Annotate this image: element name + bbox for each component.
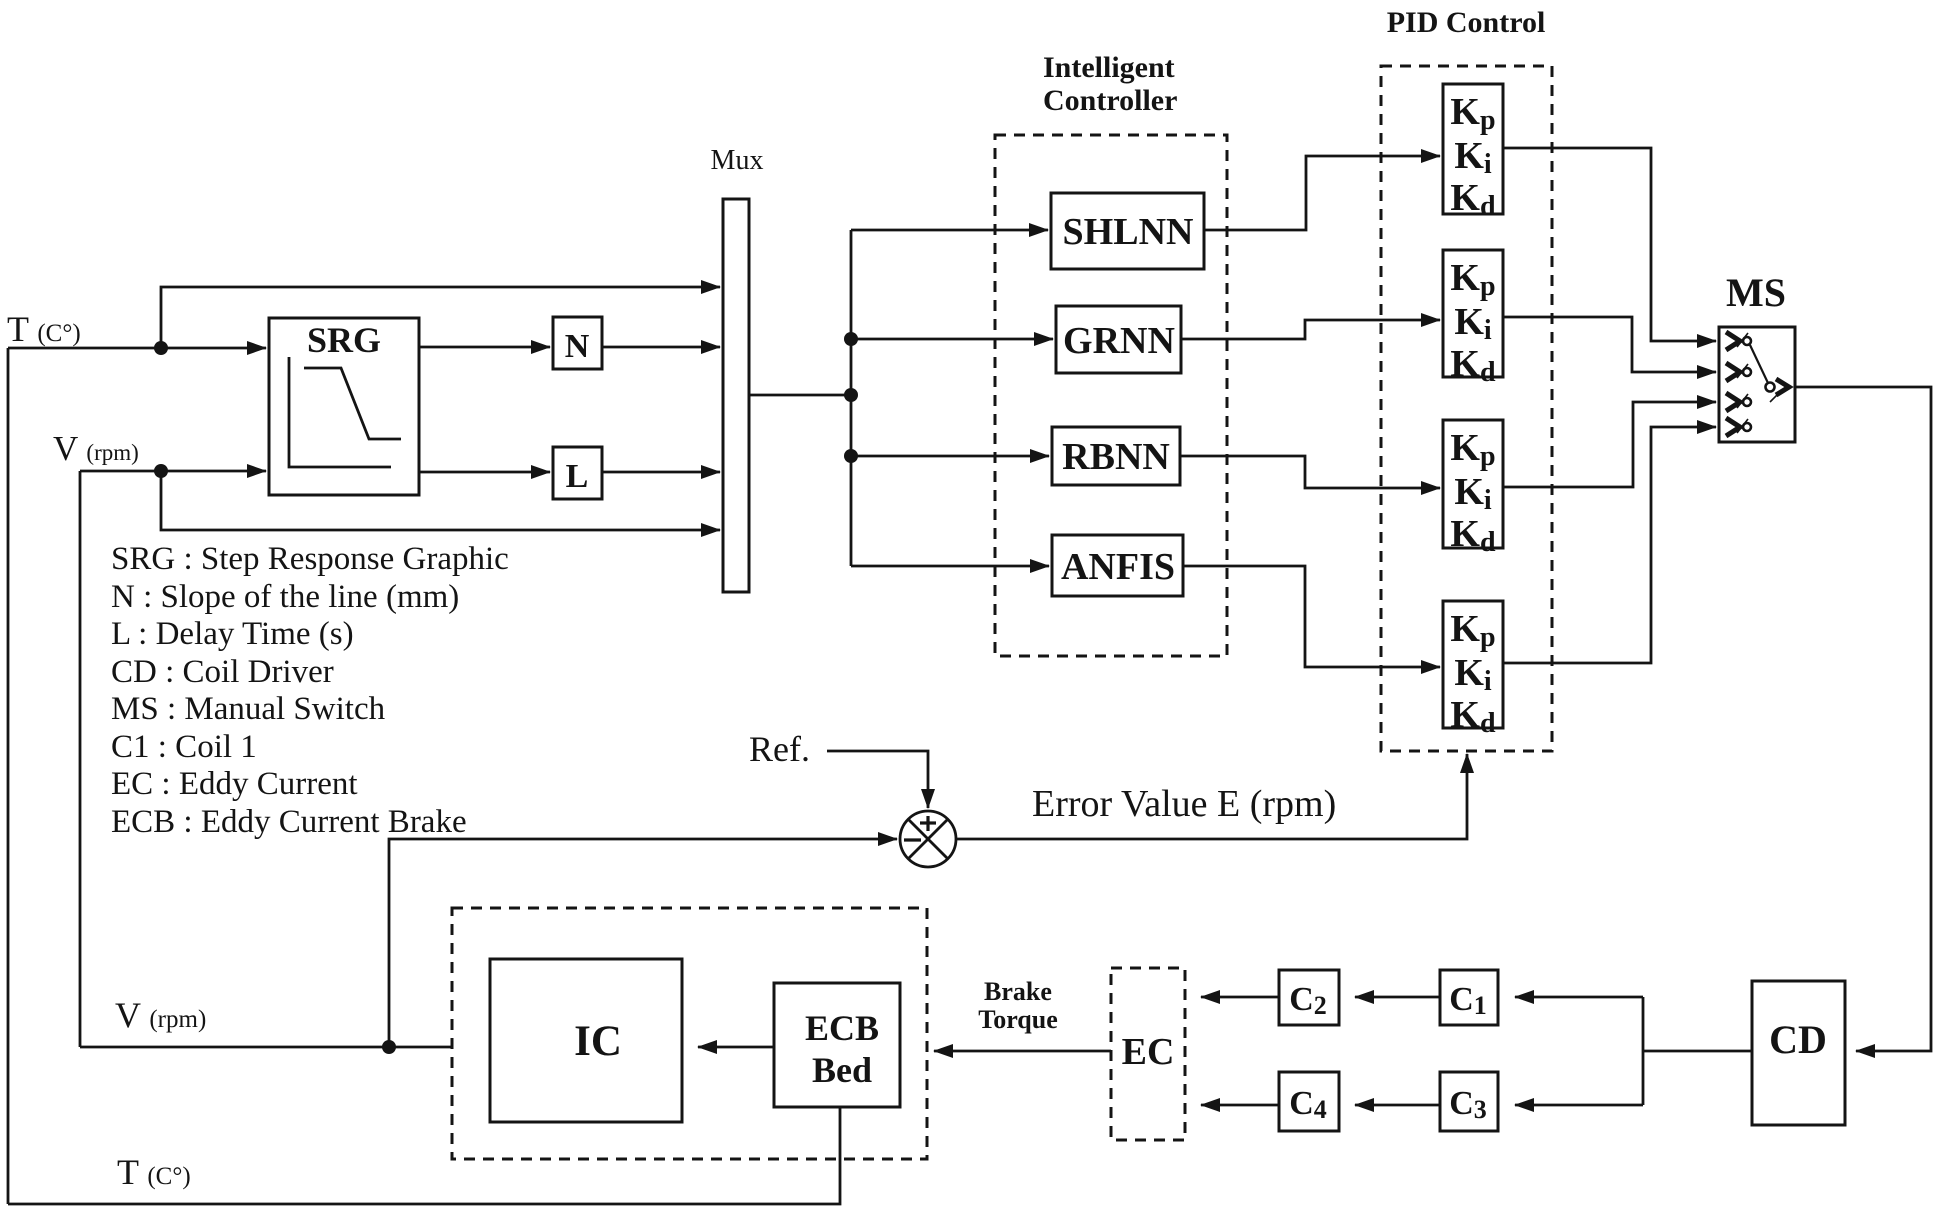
- svg-text:RBNN: RBNN: [1062, 436, 1170, 478]
- wire T branch to Mux input 1: [161, 287, 720, 348]
- node T junction: [154, 341, 168, 355]
- summing junction X cross 2: [908, 819, 948, 859]
- MS output arrow tail tick: [1770, 392, 1780, 402]
- svg-text:L : Delay Time (s): L : Delay Time (s): [111, 616, 354, 652]
- block PID gains 4: [1443, 601, 1503, 728]
- svg-text:PID Control: PID Control: [1387, 6, 1546, 39]
- wire C2 to EC: [1201, 996, 1279, 999]
- MS contact 2: [1726, 363, 1751, 381]
- MS contact 4: [1726, 418, 1751, 436]
- MS contact 1: [1726, 332, 1751, 350]
- block ANFIS: [1052, 535, 1183, 596]
- wire bottom T feedback horizontal: [8, 1107, 840, 1204]
- svg-text:Bed: Bed: [812, 1050, 872, 1090]
- node V junction: [154, 464, 168, 478]
- wire V feedback bottom horizontal: [80, 1046, 452, 1049]
- svg-text:EC : Eddy Current: EC : Eddy Current: [111, 766, 358, 802]
- wire bus to C1: [1515, 996, 1643, 999]
- summing minus sign: [904, 838, 921, 841]
- wire C1 to C2: [1355, 996, 1440, 999]
- svg-text:N: N: [565, 328, 590, 365]
- svg-text:V (rpm): V (rpm): [115, 995, 206, 1035]
- svg-text:Torque: Torque: [978, 1005, 1058, 1034]
- wire bus to C3: [1515, 1104, 1643, 1107]
- svg-text:Kd: Kd: [1450, 343, 1496, 388]
- svg-text:Kp: Kp: [1450, 91, 1495, 136]
- wire MS to CD feedback: [1795, 387, 1931, 1051]
- block L: [553, 447, 602, 499]
- svg-text:MS: MS: [1726, 270, 1786, 315]
- MS output pole: [1766, 383, 1775, 392]
- wire ANFIS to PID4: [1183, 566, 1440, 667]
- wire branch vertical bus: [850, 230, 853, 566]
- svg-text:ECB : Eddy Current Brake: ECB : Eddy Current Brake: [111, 804, 467, 840]
- block MS manual switch: [1719, 327, 1795, 442]
- svg-text:L: L: [566, 458, 589, 495]
- wire T feedback left vertical: [7, 348, 10, 1204]
- wire SHLNN to PID1: [1204, 156, 1440, 230]
- block SHLNN: [1051, 193, 1204, 269]
- svg-text:ECB: ECB: [805, 1008, 879, 1048]
- wire error value output to PID: [956, 754, 1467, 839]
- node branch center: [844, 388, 858, 402]
- svg-text:MS : Manual Switch: MS : Manual Switch: [111, 691, 386, 727]
- block C3: [1440, 1072, 1498, 1131]
- svg-text:V (rpm): V (rpm): [53, 429, 139, 468]
- svg-text:GRNN: GRNN: [1063, 320, 1175, 362]
- wire EC to ECB Bed brake torque: [934, 1050, 1111, 1053]
- wire RBNN to PID3: [1180, 456, 1440, 488]
- svg-text:Mux: Mux: [711, 145, 764, 176]
- wire PID3 to MS input3: [1503, 402, 1716, 487]
- wire L to Mux input 3: [602, 471, 720, 474]
- svg-text:CD : Coil Driver: CD : Coil Driver: [111, 654, 334, 690]
- wire N to Mux input 2: [602, 346, 720, 349]
- wire branch to ANFIS: [851, 565, 1049, 568]
- svg-text:Kp: Kp: [1450, 608, 1495, 653]
- svg-text:C4: C4: [1289, 1085, 1327, 1124]
- block GRNN: [1056, 306, 1181, 373]
- wire V junction up to summing point: [389, 839, 897, 1047]
- wire coil bus vertical: [1642, 997, 1645, 1105]
- svg-text:C1: C1: [1449, 981, 1487, 1020]
- svg-text:Kp: Kp: [1450, 257, 1495, 302]
- wire V feedback left vertical: [79, 471, 82, 1047]
- svg-text:Controller: Controller: [1043, 84, 1177, 117]
- wire PID1 to MS input1: [1503, 148, 1716, 341]
- svg-text:Ki: Ki: [1454, 652, 1492, 697]
- node V feedback junction: [382, 1040, 396, 1054]
- wire C3 to C4: [1355, 1104, 1440, 1107]
- block PID gains 3: [1443, 420, 1503, 548]
- wire SRG to N: [419, 346, 550, 349]
- node branch RBNN: [844, 449, 858, 463]
- wire GRNN to PID2: [1181, 320, 1440, 339]
- block RBNN: [1052, 427, 1180, 485]
- summing junction circle: [900, 811, 956, 867]
- wire SRG to L: [419, 471, 550, 474]
- svg-text:Ki: Ki: [1454, 471, 1492, 516]
- wire Ref input: [827, 751, 928, 808]
- MS selector lever: [1750, 345, 1768, 383]
- svg-text:C3: C3: [1449, 1085, 1487, 1124]
- MS contact 3: [1726, 393, 1751, 411]
- block C4: [1279, 1072, 1339, 1131]
- svg-text:EC: EC: [1122, 1031, 1175, 1073]
- block C1: [1440, 970, 1498, 1025]
- svg-text:Intelligent: Intelligent: [1043, 51, 1175, 84]
- svg-text:Ref.: Ref.: [749, 729, 810, 769]
- block EC dashed: [1111, 968, 1185, 1140]
- wire branch to GRNN: [851, 338, 1053, 341]
- block PID Control dashed box: [1381, 66, 1552, 751]
- wire C4 to EC: [1201, 1104, 1279, 1107]
- svg-text:Kp: Kp: [1450, 427, 1495, 472]
- block Intelligent Controller dashed box: [995, 135, 1227, 656]
- svg-text:T (C°): T (C°): [117, 1152, 191, 1192]
- block C2: [1279, 970, 1339, 1025]
- svg-text:SHLNN: SHLNN: [1063, 211, 1194, 253]
- wire V branch to Mux input 4: [161, 471, 720, 530]
- summing junction X cross: [908, 819, 948, 859]
- svg-text:SRG : Step Response Graphic: SRG : Step Response Graphic: [111, 541, 509, 577]
- wire PID2 to MS input2: [1503, 317, 1716, 372]
- block N: [553, 317, 602, 369]
- wire branch to SHLNN: [851, 229, 1048, 232]
- block SRG: [269, 318, 419, 495]
- block CD: [1752, 981, 1845, 1125]
- node branch GRNN: [844, 332, 858, 346]
- wire T input horizontal into SRG: [8, 347, 266, 350]
- block Mux: [723, 199, 749, 592]
- svg-text:SRG: SRG: [307, 320, 381, 360]
- svg-text:C1 : Coil 1: C1 : Coil 1: [111, 729, 257, 765]
- MS output arrow chevron: [1776, 379, 1789, 395]
- wire Mux output: [749, 394, 851, 397]
- wire PID4 to MS input4: [1503, 427, 1716, 663]
- svg-text:Error Value E (rpm): Error Value E (rpm): [1032, 783, 1336, 825]
- wire ECB Bed to IC: [698, 1046, 774, 1049]
- block ECB Bed: [774, 983, 900, 1107]
- wire branch to RBNN: [851, 455, 1049, 458]
- block PID gains 1: [1443, 84, 1503, 214]
- svg-text:Ki: Ki: [1454, 301, 1492, 346]
- block IC: [490, 959, 682, 1122]
- block PID gains 2: [1443, 250, 1503, 377]
- summing plus sign: [920, 816, 936, 831]
- svg-text:Kd: Kd: [1450, 694, 1496, 739]
- SRG step response curve: [304, 368, 401, 439]
- block IC test dashed box: [452, 908, 927, 1159]
- wire V input horizontal into SRG: [80, 470, 266, 473]
- svg-text:C2: C2: [1289, 981, 1327, 1020]
- svg-text:CD: CD: [1769, 1017, 1827, 1062]
- svg-text:Brake: Brake: [984, 977, 1052, 1006]
- svg-text:Kd: Kd: [1450, 513, 1496, 558]
- svg-text:IC: IC: [574, 1018, 622, 1065]
- svg-text:N : Slope of the line (mm): N : Slope of the line (mm): [111, 579, 459, 615]
- svg-text:Kd: Kd: [1450, 177, 1496, 222]
- svg-text:ANFIS: ANFIS: [1061, 546, 1175, 588]
- svg-text:T (C°): T (C°): [7, 309, 81, 349]
- wire CD to coil bus: [1643, 1050, 1752, 1053]
- SRG axes: [289, 357, 391, 467]
- svg-text:Ki: Ki: [1454, 135, 1492, 180]
